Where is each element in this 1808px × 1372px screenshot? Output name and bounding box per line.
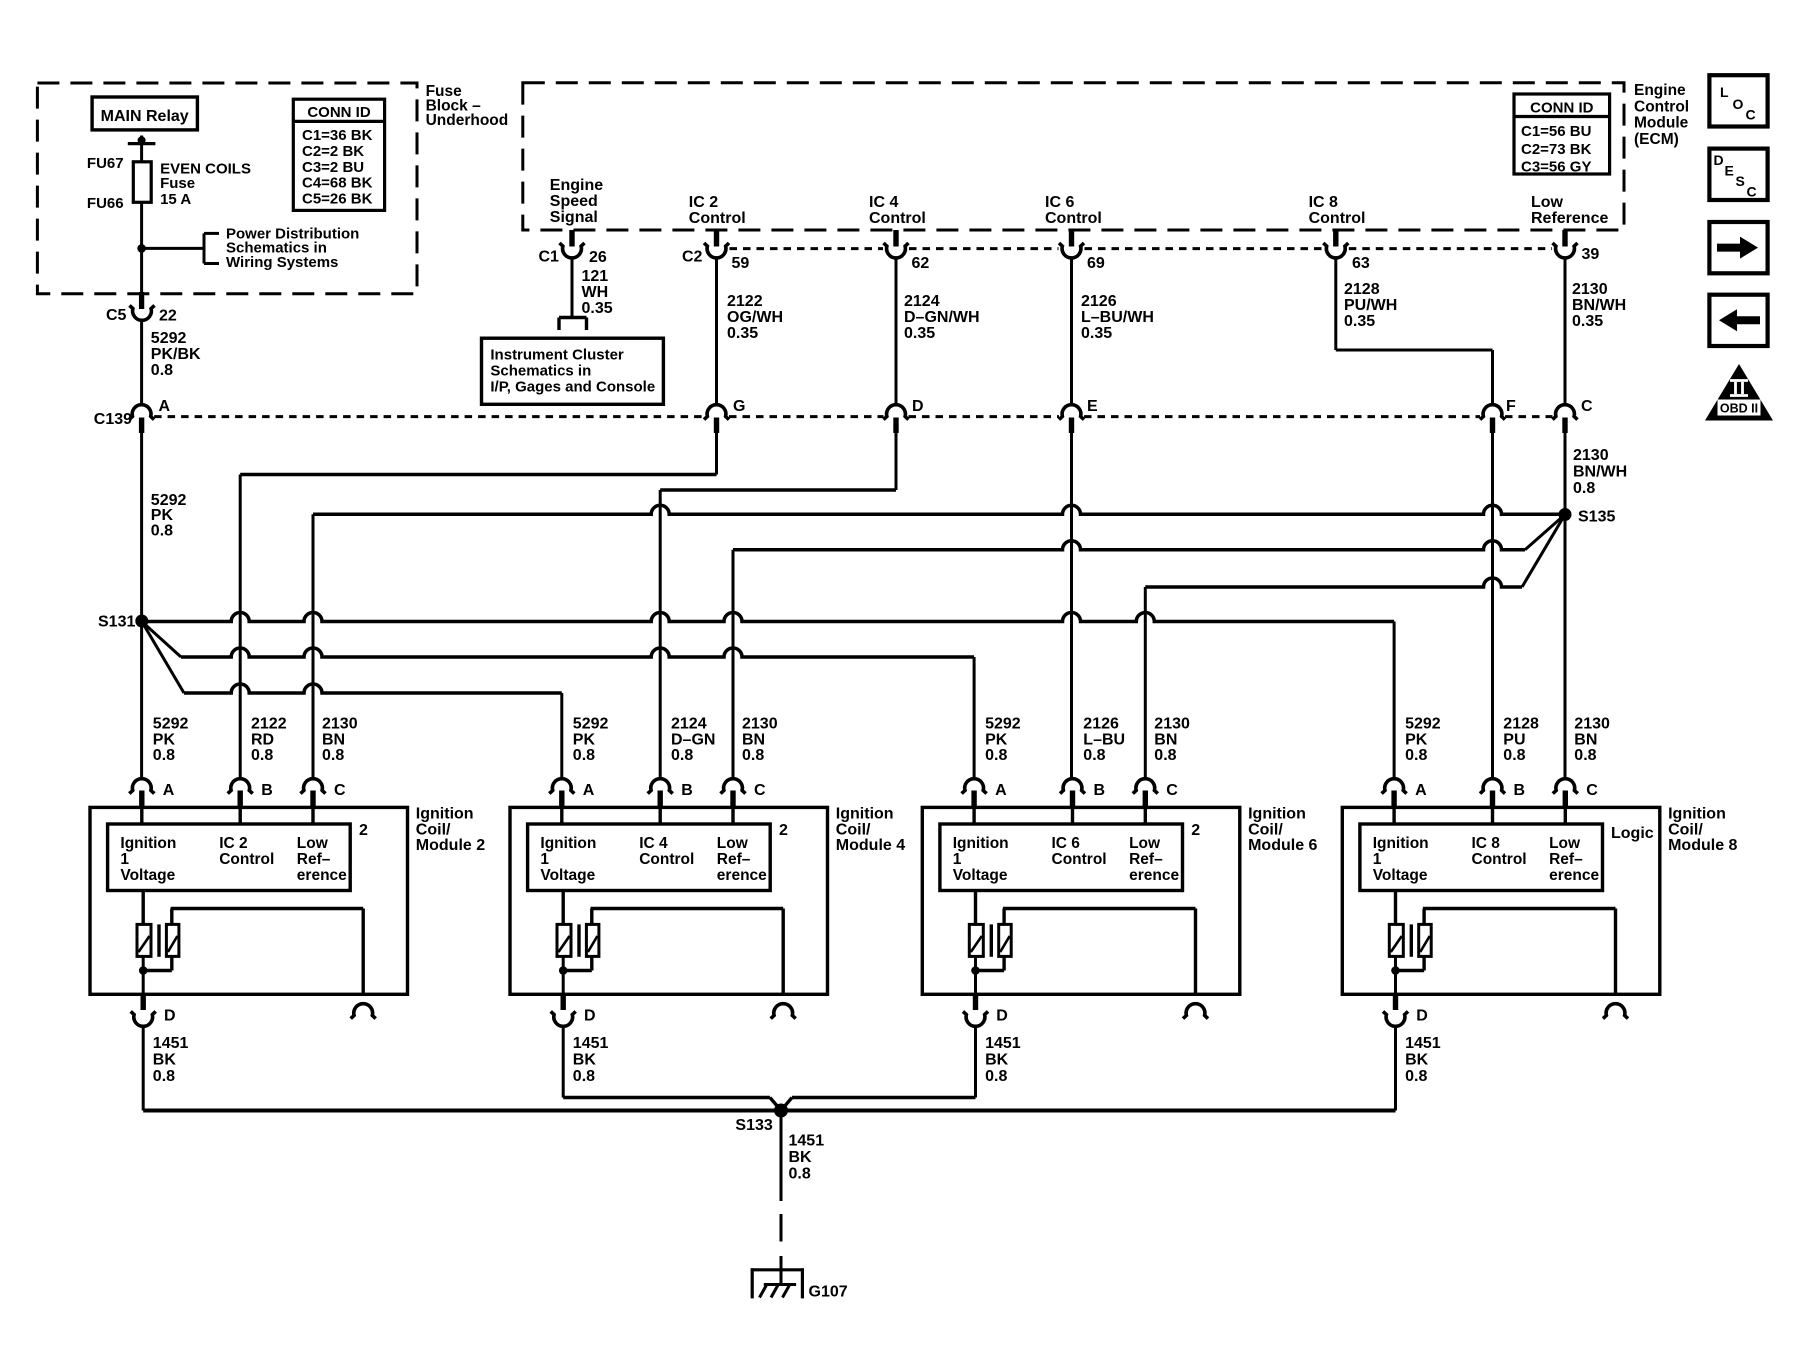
svg-text:0.8: 0.8 — [1405, 747, 1427, 764]
svg-text:C1=36 BK: C1=36 BK — [302, 127, 373, 144]
svg-text:Reference: Reference — [1531, 210, 1608, 227]
svg-text:Ref–: Ref– — [297, 851, 331, 868]
svg-text:WH: WH — [582, 284, 609, 301]
svg-text:B: B — [1094, 782, 1106, 799]
svg-text:Voltage: Voltage — [953, 867, 1008, 884]
svg-text:A: A — [163, 782, 175, 799]
svg-text:S135: S135 — [1578, 509, 1615, 526]
svg-text:0.8: 0.8 — [322, 747, 344, 764]
svg-text:D–GN: D–GN — [671, 731, 715, 748]
svg-text:5292: 5292 — [151, 330, 187, 347]
svg-text:1451: 1451 — [573, 1035, 609, 1052]
svg-text:1451: 1451 — [1405, 1035, 1441, 1052]
svg-text:BK: BK — [1405, 1052, 1429, 1069]
svg-text:D: D — [996, 1008, 1008, 1025]
svg-text:PK: PK — [1405, 731, 1428, 748]
svg-text:D: D — [1714, 152, 1724, 168]
svg-text:MAIN Relay: MAIN Relay — [101, 108, 189, 125]
svg-text:0.35: 0.35 — [1572, 313, 1603, 330]
svg-text:FU67: FU67 — [87, 155, 124, 172]
svg-text:5292: 5292 — [153, 716, 189, 733]
svg-text:C4=68 BK: C4=68 BK — [302, 175, 373, 192]
svg-text:D: D — [1416, 1008, 1428, 1025]
svg-text:2122: 2122 — [727, 293, 763, 310]
svg-text:Ref–: Ref– — [717, 851, 751, 868]
svg-text:BN/WH: BN/WH — [1573, 464, 1627, 481]
svg-text:Ignition: Ignition — [120, 835, 176, 852]
svg-text:BN: BN — [742, 731, 765, 748]
svg-text:0.35: 0.35 — [1344, 313, 1375, 330]
svg-text:0.8: 0.8 — [251, 747, 273, 764]
svg-text:Ignition: Ignition — [1668, 806, 1726, 823]
svg-text:Coil/: Coil/ — [1248, 821, 1283, 838]
svg-text:Module 6: Module 6 — [1248, 837, 1317, 854]
svg-text:OG/WH: OG/WH — [727, 309, 783, 326]
svg-text:0.8: 0.8 — [985, 747, 1007, 764]
svg-text:BK: BK — [789, 1149, 813, 1166]
svg-text:C2=2 BK: C2=2 BK — [302, 143, 364, 160]
svg-text:C: C — [1746, 107, 1756, 123]
svg-text:D: D — [584, 1008, 596, 1025]
svg-text:C3=2 BU: C3=2 BU — [302, 159, 364, 176]
svg-text:1: 1 — [540, 851, 549, 868]
svg-text:Low: Low — [297, 835, 329, 852]
svg-text:121: 121 — [582, 268, 609, 285]
svg-text:0.8: 0.8 — [742, 747, 764, 764]
svg-text:1451: 1451 — [985, 1035, 1021, 1052]
svg-text:Control: Control — [219, 851, 274, 868]
svg-text:erence: erence — [1549, 867, 1599, 884]
svg-text:C139: C139 — [94, 411, 132, 428]
svg-text:I/P, Gages and Console: I/P, Gages and Console — [490, 379, 655, 396]
svg-text:OBD II: OBD II — [1720, 402, 1758, 416]
svg-text:Coil/: Coil/ — [1668, 821, 1703, 838]
svg-text:D: D — [164, 1008, 176, 1025]
svg-text:Control: Control — [1052, 851, 1107, 868]
svg-text:Ignition: Ignition — [540, 835, 596, 852]
svg-text:22: 22 — [159, 308, 177, 325]
svg-text:C: C — [334, 782, 346, 799]
svg-text:1: 1 — [1373, 851, 1382, 868]
svg-text:L–BU/WH: L–BU/WH — [1081, 309, 1154, 326]
svg-text:0.8: 0.8 — [151, 523, 173, 540]
svg-text:0.8: 0.8 — [985, 1068, 1007, 1085]
svg-text:Low: Low — [717, 835, 749, 852]
svg-text:0.8: 0.8 — [573, 747, 595, 764]
svg-text:PU/WH: PU/WH — [1344, 297, 1397, 314]
svg-text:D–GN/WH: D–GN/WH — [904, 309, 980, 326]
svg-text:L: L — [1720, 84, 1729, 100]
svg-text:0.8: 0.8 — [671, 747, 693, 764]
svg-text:Module 2: Module 2 — [416, 837, 485, 854]
svg-text:C: C — [1581, 398, 1593, 415]
svg-text:2: 2 — [359, 822, 368, 839]
svg-text:Low: Low — [1531, 194, 1564, 211]
svg-text:E: E — [1087, 398, 1098, 415]
svg-text:L–BU: L–BU — [1083, 731, 1125, 748]
svg-text:erence: erence — [1129, 867, 1179, 884]
svg-text:5292: 5292 — [985, 716, 1021, 733]
svg-text:39: 39 — [1582, 246, 1600, 263]
svg-text:2128: 2128 — [1344, 281, 1380, 298]
svg-text:C5: C5 — [106, 307, 127, 324]
svg-text:C: C — [1166, 782, 1178, 799]
svg-text:59: 59 — [732, 255, 750, 272]
svg-text:Ignition: Ignition — [1248, 806, 1306, 823]
svg-text:IC 8: IC 8 — [1309, 194, 1338, 211]
svg-text:BN: BN — [1574, 731, 1597, 748]
svg-text:BK: BK — [153, 1052, 177, 1069]
svg-text:Ignition: Ignition — [953, 835, 1009, 852]
svg-text:Control: Control — [1309, 210, 1366, 227]
svg-text:0.8: 0.8 — [153, 1068, 175, 1085]
svg-text:C: C — [754, 782, 766, 799]
svg-text:IC 8: IC 8 — [1472, 835, 1501, 852]
svg-text:CONN ID: CONN ID — [1530, 100, 1594, 117]
svg-text:Module: Module — [1634, 115, 1689, 132]
svg-text:Wiring Systems: Wiring Systems — [226, 254, 338, 271]
svg-text:63: 63 — [1352, 255, 1370, 272]
svg-text:B: B — [681, 782, 693, 799]
svg-text:5292: 5292 — [1405, 716, 1441, 733]
svg-text:2124: 2124 — [904, 293, 940, 310]
svg-text:2130: 2130 — [1154, 716, 1190, 733]
svg-text:15 A: 15 A — [160, 191, 191, 208]
svg-text:62: 62 — [912, 255, 930, 272]
svg-text:Low: Low — [1549, 835, 1581, 852]
svg-text:F: F — [1506, 398, 1516, 415]
svg-text:Control: Control — [1472, 851, 1527, 868]
svg-text:0.8: 0.8 — [1573, 480, 1595, 497]
svg-text:26: 26 — [589, 249, 607, 266]
svg-text:Coil/: Coil/ — [836, 821, 871, 838]
svg-text:C: C — [1586, 782, 1598, 799]
svg-text:(ECM): (ECM) — [1634, 131, 1679, 148]
svg-text:0.8: 0.8 — [1503, 747, 1525, 764]
svg-text:2126: 2126 — [1081, 293, 1117, 310]
svg-text:Ignition: Ignition — [1373, 835, 1429, 852]
svg-text:erence: erence — [297, 867, 347, 884]
svg-text:Voltage: Voltage — [120, 867, 175, 884]
svg-text:Engine: Engine — [1634, 82, 1686, 99]
svg-text:PK: PK — [573, 731, 596, 748]
svg-text:Control: Control — [1045, 210, 1102, 227]
svg-text:0.8: 0.8 — [1083, 747, 1105, 764]
svg-text:C2: C2 — [682, 249, 703, 266]
svg-text:IC 6: IC 6 — [1045, 194, 1074, 211]
svg-text:BN: BN — [1154, 731, 1177, 748]
svg-text:2130: 2130 — [1574, 716, 1610, 733]
svg-text:2126: 2126 — [1083, 716, 1119, 733]
svg-text:Ref–: Ref– — [1129, 851, 1163, 868]
svg-text:S133: S133 — [735, 1117, 772, 1134]
svg-text:Control: Control — [869, 210, 926, 227]
svg-text:G107: G107 — [809, 1284, 848, 1301]
svg-text:BN: BN — [322, 731, 345, 748]
svg-text:Control: Control — [689, 210, 746, 227]
svg-text:G: G — [733, 398, 745, 415]
svg-text:2130: 2130 — [742, 716, 778, 733]
svg-text:Module 8: Module 8 — [1668, 837, 1737, 854]
svg-text:2128: 2128 — [1503, 716, 1539, 733]
svg-text:A: A — [995, 782, 1007, 799]
svg-text:69: 69 — [1087, 255, 1105, 272]
svg-text:0.8: 0.8 — [1154, 747, 1176, 764]
svg-text:BK: BK — [985, 1052, 1009, 1069]
svg-text:2: 2 — [1191, 822, 1200, 839]
svg-text:5292: 5292 — [573, 716, 609, 733]
svg-text:IC 4: IC 4 — [639, 835, 668, 852]
svg-text:Coil/: Coil/ — [416, 821, 451, 838]
svg-text:Ignition: Ignition — [836, 806, 894, 823]
svg-text:0.35: 0.35 — [582, 300, 613, 317]
svg-text:A: A — [159, 398, 171, 415]
svg-text:0.8: 0.8 — [1405, 1068, 1427, 1085]
svg-text:0.8: 0.8 — [151, 362, 173, 379]
svg-text:2122: 2122 — [251, 716, 287, 733]
svg-text:O: O — [1733, 96, 1744, 112]
svg-text:Ignition: Ignition — [416, 806, 474, 823]
svg-text:BN/WH: BN/WH — [1572, 297, 1626, 314]
svg-text:E: E — [1725, 163, 1734, 179]
svg-text:0.8: 0.8 — [1574, 747, 1596, 764]
svg-text:2130: 2130 — [322, 716, 358, 733]
svg-text:C5=26 BK: C5=26 BK — [302, 191, 373, 208]
svg-text:IC 4: IC 4 — [869, 194, 898, 211]
svg-text:D: D — [912, 398, 924, 415]
svg-text:Control: Control — [1634, 98, 1689, 115]
svg-text:IC 2: IC 2 — [689, 194, 718, 211]
svg-text:Ref–: Ref– — [1549, 851, 1583, 868]
svg-text:Voltage: Voltage — [540, 867, 595, 884]
svg-text:Low: Low — [1129, 835, 1161, 852]
svg-text:S: S — [1736, 173, 1745, 189]
svg-text:PK: PK — [153, 731, 176, 748]
svg-text:PK/BK: PK/BK — [151, 346, 201, 363]
svg-text:0.8: 0.8 — [789, 1166, 811, 1183]
svg-text:B: B — [1514, 782, 1526, 799]
svg-text:CONN ID: CONN ID — [307, 104, 371, 121]
svg-text:A: A — [1415, 782, 1427, 799]
svg-text:Instrument Cluster: Instrument Cluster — [490, 346, 624, 363]
svg-text:B: B — [261, 782, 273, 799]
svg-text:2130: 2130 — [1573, 447, 1609, 464]
svg-text:0.8: 0.8 — [153, 747, 175, 764]
svg-text:Voltage: Voltage — [1373, 867, 1428, 884]
svg-text:Engine: Engine — [550, 177, 603, 194]
svg-text:0.35: 0.35 — [727, 325, 758, 342]
svg-text:erence: erence — [717, 867, 767, 884]
svg-text:BK: BK — [573, 1052, 597, 1069]
svg-text:C2=73 BK: C2=73 BK — [1521, 141, 1592, 158]
svg-text:2130: 2130 — [1572, 281, 1608, 298]
svg-text:Schematics in: Schematics in — [490, 363, 591, 380]
svg-text:A: A — [583, 782, 595, 799]
svg-text:IC 6: IC 6 — [1052, 835, 1081, 852]
svg-text:Control: Control — [639, 851, 694, 868]
svg-text:Fuse: Fuse — [160, 175, 195, 192]
svg-text:C1=56 BU: C1=56 BU — [1521, 123, 1591, 140]
svg-text:Signal: Signal — [550, 209, 598, 226]
svg-text:1451: 1451 — [789, 1133, 825, 1150]
svg-text:0.35: 0.35 — [904, 325, 935, 342]
svg-text:1: 1 — [120, 851, 129, 868]
svg-text:1: 1 — [953, 851, 962, 868]
svg-text:0.35: 0.35 — [1081, 325, 1112, 342]
svg-text:RD: RD — [251, 731, 274, 748]
svg-text:PU: PU — [1503, 731, 1525, 748]
svg-text:Module 4: Module 4 — [836, 837, 905, 854]
svg-text:2: 2 — [779, 822, 788, 839]
svg-text:Underhood: Underhood — [426, 112, 509, 129]
svg-text:0.8: 0.8 — [573, 1068, 595, 1085]
svg-text:Logic: Logic — [1611, 825, 1654, 842]
svg-text:PK: PK — [985, 731, 1008, 748]
svg-text:FU66: FU66 — [87, 195, 124, 212]
svg-text:Speed: Speed — [550, 193, 598, 210]
svg-text:1451: 1451 — [153, 1035, 189, 1052]
svg-text:C: C — [1747, 184, 1757, 200]
svg-text:S131: S131 — [98, 614, 135, 631]
svg-text:C1: C1 — [539, 249, 560, 266]
svg-text:2124: 2124 — [671, 716, 707, 733]
svg-text:IC 2: IC 2 — [219, 835, 247, 852]
